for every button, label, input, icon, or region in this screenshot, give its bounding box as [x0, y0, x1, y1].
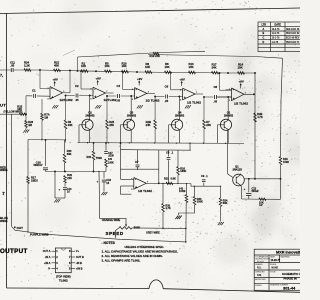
node OUT	[14, 226, 16, 228]
pin 3	[52, 262, 56, 264]
wire stage3 output	[147, 92, 155, 94]
ground R34	[218, 222, 220, 225]
resistor R30 4.7K	[162, 183, 164, 203]
svg-text:WIRE: WIRE	[0, 219, 8, 223]
capacitor C9	[203, 183, 205, 187]
wire lfo lower link	[185, 228, 187, 230]
svg-text:PER ECO 52: PER ECO 52	[286, 33, 300, 35]
node bus joints	[41, 139, 42, 140]
svg-text:OUT A: OUT A	[43, 250, 51, 253]
svg-text:AP: AP	[259, 204, 263, 207]
svg-text:C1: C1	[32, 89, 36, 93]
svg-text:B: B	[263, 32, 265, 35]
wire upper rail A	[78, 51, 206, 57]
resistor R7 24K	[203, 97, 205, 120]
op-amp U3a	[232, 88, 245, 101]
svg-text:GREY WIRE: GREY WIRE	[146, 231, 160, 234]
svg-text:+: +	[94, 95, 96, 99]
op-amp U2a	[135, 88, 148, 100]
svg-text:R30: R30	[67, 150, 72, 153]
capacitor C1	[32, 94, 37, 99]
resistor R24	[24, 69, 31, 72]
svg-text:- NOTES: - NOTES	[102, 241, 116, 245]
pot wiper	[125, 218, 127, 224]
node input	[25, 113, 27, 115]
wire Q4 gate	[169, 124, 172, 126]
svg-text:WIRE: WIRE	[0, 168, 8, 172]
svg-text:1/2 TL062: 1/2 TL062	[187, 100, 201, 104]
svg-text:+IN A: +IN A	[44, 262, 51, 265]
svg-text:10K: 10K	[189, 65, 194, 69]
svg-text:1/2 TL062: 1/2 TL062	[146, 99, 160, 103]
svg-text:1-9-76: 1-9-76	[272, 42, 279, 44]
wire stage3 plus input	[107, 95, 135, 97]
transistor Q1 2N5952	[220, 119, 231, 130]
resistor R10	[122, 70, 129, 73]
transistor Q1 2N4125	[233, 174, 245, 186]
svg-text:+: +	[184, 96, 186, 100]
resistor R6 24K	[65, 96, 67, 121]
pin 1	[52, 250, 56, 252]
ground R33	[176, 216, 178, 219]
ground U1a	[52, 105, 54, 108]
svg-text:180K: 180K	[180, 170, 186, 173]
svg-text:C2: C2	[75, 84, 79, 88]
scratch artifact	[63, 50, 75, 56]
revision table	[258, 22, 302, 52]
op-amp U2b	[183, 88, 196, 100]
svg-text:ORANGE WIRE: ORANGE WIRE	[102, 219, 121, 222]
node rail-6	[254, 72, 256, 74]
svg-text:11-6-75: 11-6-75	[272, 33, 280, 35]
wire bypass down	[11, 114, 13, 226]
svg-text:UNLESS OTHERWISE SPEC.: UNLESS OTHERWISE SPEC.	[125, 245, 165, 249]
pin 7	[71, 256, 75, 258]
svg-text:OUTPUT: OUTPUT	[0, 248, 28, 255]
wire Q5 to Q1	[227, 131, 229, 175]
svg-text:+: +	[244, 187, 246, 191]
ground lfo1	[175, 216, 177, 219]
resistor R13	[189, 71, 196, 74]
wire stage2 minus input	[80, 71, 82, 89]
svg-text:V-: V-	[48, 268, 51, 271]
svg-text:R29: R29	[67, 174, 72, 177]
transistor Q4 2N5952	[172, 119, 183, 130]
wire input	[0, 113, 26, 115]
pot right terminal	[132, 227, 186, 230]
op-amp U1a	[50, 87, 63, 99]
wire lfo column C17	[105, 143, 107, 151]
svg-text:A: A	[263, 28, 265, 31]
transistor Q2 2N5952	[82, 119, 93, 130]
wire lfo minus	[120, 169, 122, 179]
capacitor C10	[45, 140, 47, 166]
svg-text:LTR: LTR	[262, 24, 267, 27]
svg-text:100K: 100K	[108, 161, 114, 164]
wire U1a output	[63, 92, 71, 94]
svg-text:56K: 56K	[223, 202, 228, 205]
svg-text:+IN B: +IN B	[76, 268, 83, 271]
wire U3a output	[244, 93, 255, 95]
wire Q2 gate	[79, 124, 82, 126]
pot left terminal	[116, 228, 120, 238]
svg-text:+: +	[51, 95, 53, 99]
svg-text:10-2-75: 10-2-75	[272, 29, 281, 31]
svg-text:+9V: +9V	[53, 78, 58, 82]
resistor R33 100K	[194, 186, 196, 196]
wire lfo output	[146, 182, 161, 184]
wire q1 base net	[191, 184, 221, 187]
wire gnd join	[55, 197, 65, 199]
pin 6	[71, 262, 75, 264]
wire lfo mid line	[121, 149, 192, 152]
transistor Q3 2N5952	[123, 119, 134, 130]
svg-text:+: +	[135, 186, 137, 190]
wire Q2 source	[89, 131, 91, 144]
resistor R16 180K	[177, 150, 179, 166]
svg-text:2. ALL RESISTANCE VALUES ARE I: 2. ALL RESISTANCE VALUES ARE IN OHMS.	[102, 254, 163, 258]
resistor R30 68K	[64, 140, 66, 154]
wire upper rail B	[148, 55, 283, 59]
wire stage4 minus input	[170, 72, 172, 89]
node stage2 bias	[65, 95, 67, 97]
svg-text:OUT B: OUT B	[76, 256, 84, 259]
svg-text:500uF: 500uF	[252, 190, 260, 193]
svg-text:C6: C6	[165, 85, 169, 89]
svg-text:-IN A: -IN A	[45, 256, 51, 259]
svg-text:100K: 100K	[197, 201, 203, 204]
wire stage5 plus input	[204, 96, 232, 98]
node rail-2	[69, 70, 71, 72]
resistor R29 22K	[64, 176, 67, 184]
wire Q4 source	[178, 131, 180, 144]
svg-text:10K: 10K	[105, 64, 110, 68]
wire Q1 drain	[227, 97, 229, 120]
capacitor C7	[137, 150, 139, 164]
svg-text:10K: 10K	[122, 64, 127, 68]
node stage4 bias	[154, 96, 156, 98]
svg-text:10K: 10K	[238, 65, 243, 69]
wire U1a inputs	[39, 70, 41, 89]
wire bias bus right	[78, 142, 244, 145]
svg-text:V+: V+	[76, 250, 80, 253]
svg-text:.05: .05	[75, 99, 79, 102]
title block	[254, 249, 302, 290]
wire Q1 emitter	[244, 178, 280, 180]
pin 4	[52, 268, 56, 270]
ground U1b	[95, 105, 97, 108]
svg-text:+9V: +9V	[96, 77, 101, 81]
resistor R7A	[41, 99, 43, 113]
ground C18	[101, 192, 103, 195]
svg-text:CHECKED: CHECKED	[255, 271, 265, 273]
node rail-1	[39, 69, 41, 71]
ground U2a	[137, 105, 139, 108]
svg-text:TITLE: TITLE	[270, 272, 276, 274]
op-amp U3b LFO	[134, 178, 147, 190]
resistor R9B	[186, 184, 188, 195]
wire stage4 output	[195, 93, 203, 95]
wire stage2 output	[106, 92, 114, 94]
svg-text:.05: .05	[10, 64, 14, 68]
svg-text:-IN B: -IN B	[76, 262, 82, 265]
svg-text:NONE: NONE	[272, 267, 279, 269]
svg-text:12-1-75: 12-1-75	[272, 38, 281, 40]
svg-text:4.7K: 4.7K	[257, 116, 263, 119]
wire U3a inputs	[226, 89, 232, 91]
wire Q3 source	[130, 131, 132, 144]
svg-text:10KB: 10KB	[179, 190, 186, 193]
svg-text:7,: 7,	[0, 74, 3, 78]
ground U2b	[185, 105, 187, 108]
wire purple	[40, 234, 186, 242]
node rail-4	[136, 71, 138, 73]
wire upper rail A drop	[77, 57, 79, 71]
pin 8	[71, 250, 75, 252]
svg-text:301-44: 301-44	[283, 286, 296, 291]
wire lfo out net	[161, 182, 191, 184]
svg-text:+: +	[59, 187, 61, 191]
wire stage5 output	[244, 93, 252, 95]
wire bias bus left	[28, 139, 66, 141]
wire orange drop	[99, 172, 126, 219]
resistor R26	[25, 114, 27, 120]
svg-text:1. ALL CAPACITANCE VALUES ARE: 1. ALL CAPACITANCE VALUES ARE IN MICROFA…	[102, 250, 179, 254]
capacitor C4	[116, 93, 120, 98]
border frame top	[0, 8, 300, 14]
pin 5	[71, 268, 75, 270]
wire Q3 drain	[130, 96, 132, 120]
svg-text:SCHEMATIC /: SCHEMATIC /	[282, 272, 300, 276]
svg-text:.01W: .01W	[108, 154, 114, 157]
svg-text:150K: 150K	[283, 161, 289, 164]
svg-text:+9V: +9V	[137, 77, 142, 81]
resistor R21b 6.8K	[166, 182, 173, 184]
node rail-3	[95, 70, 97, 72]
svg-text:UNLESS NOTED: UNLESS NOTED	[255, 258, 270, 260]
resistor R25 24K	[106, 96, 108, 120]
resistor R23	[19, 113, 26, 115]
wire grey to pot	[162, 212, 164, 228]
resistor R18 150K	[281, 58, 283, 100]
svg-text:68K: 68K	[67, 153, 72, 156]
wire stage2 plus input	[66, 95, 94, 97]
wire bus drop x190	[189, 143, 191, 150]
resistor R5	[105, 70, 112, 73]
svg-text:.05: .05	[117, 99, 121, 102]
svg-text:10-29-75: 10-29-75	[271, 259, 281, 262]
svg-text:10K: 10K	[145, 65, 150, 69]
resistor R14	[238, 72, 245, 75]
svg-text:1/2 TL062: 1/2 TL062	[138, 189, 152, 193]
border frame left	[6, 13, 8, 288]
svg-text:.05: .05	[165, 100, 169, 103]
resistor R28 feedback	[27, 140, 29, 177]
wire lfo feedback up	[158, 150, 160, 183]
ground output	[54, 199, 56, 202]
node stage5 bias	[203, 96, 205, 98]
svg-text:+: +	[233, 97, 235, 101]
wire stage5 minus input	[219, 73, 221, 90]
svg-text:10K: 10K	[81, 64, 86, 68]
svg-text:TL062: TL062	[59, 278, 68, 282]
op-amp U1b	[93, 87, 106, 99]
resistor R17	[212, 71, 219, 74]
svg-text:1/2TL062: 1/2TL062	[104, 98, 117, 102]
wire Q1 gate	[218, 124, 221, 126]
resistor R22 750K	[92, 151, 95, 160]
resistor R34 56K	[220, 186, 222, 198]
svg-text:2.2K: 2.2K	[24, 64, 30, 68]
wire output diagonal	[12, 226, 41, 233]
svg-text:D.M.: D.M.	[257, 275, 262, 277]
border frame bottom	[7, 287, 149, 290]
svg-text:1/2 TL062: 1/2 TL062	[234, 101, 248, 105]
svg-text:100: 100	[108, 158, 113, 161]
ground R26	[25, 128, 27, 130]
wire lfo plus	[121, 185, 134, 187]
potentiometer SPEED 500K	[119, 227, 132, 230]
resistor R26b	[254, 113, 257, 122]
wire bottom right	[242, 198, 281, 200]
svg-text:+: +	[136, 96, 138, 100]
resistor R31 100K	[105, 159, 108, 167]
wire input to buffer	[25, 96, 27, 114]
resistor R8	[165, 71, 172, 74]
pin 2	[52, 256, 56, 258]
resistor R19	[153, 52, 159, 54]
svg-text:.05: .05	[214, 100, 218, 103]
svg-text:10K: 10K	[165, 65, 170, 69]
capacitor C2	[75, 93, 79, 98]
svg-text:C: C	[263, 37, 265, 40]
svg-text:1MEG: 1MEG	[31, 180, 38, 183]
node stage3 bias	[106, 95, 108, 97]
wire lfo top line	[121, 143, 160, 169]
svg-text:+9V: +9V	[180, 77, 185, 81]
wire lfo column 750K	[93, 143, 95, 151]
svg-text:4.7K: 4.7K	[165, 207, 171, 210]
svg-text:R.S.: R.S.	[257, 268, 262, 270]
resistor R21	[54, 69, 61, 72]
wire Q1 source	[227, 131, 229, 144]
wire Q2 drain	[89, 96, 91, 120]
svg-text:D: D	[263, 41, 265, 44]
svg-text:DATE: DATE	[275, 24, 282, 27]
svg-text:MXR Innovations, Inc.: MXR Innovations, Inc.	[276, 250, 300, 254]
svg-text:PHASE 90: PHASE 90	[284, 277, 298, 281]
svg-text:OUT: OUT	[17, 226, 24, 230]
svg-text:ECO 60 REV: ECO 60 REV	[286, 38, 300, 40]
IC pinout TL062	[55, 248, 71, 273]
capacitor C6	[164, 94, 168, 99]
wire Q4 drain	[178, 97, 180, 120]
wire C10 to ground	[54, 172, 56, 199]
wire right column	[254, 73, 256, 179]
svg-text:560/10V: 560/10V	[34, 164, 43, 167]
capacitor C18 16uF	[103, 172, 105, 179]
svg-text:3. ALL OPAMPS ARE TL062.: 3. ALL OPAMPS ARE TL062.	[102, 259, 141, 263]
capacitor C12 500uF	[248, 179, 250, 193]
svg-text:45K: 45K	[54, 64, 59, 68]
wire main rail	[0, 70, 255, 73]
svg-text:UT: UT	[0, 103, 6, 108]
svg-text:FINISH: FINISH	[255, 285, 262, 287]
svg-text:.XX ±.01: .XX ±.01	[257, 261, 264, 263]
resistor R1	[81, 70, 88, 73]
node rail-5	[227, 72, 229, 74]
svg-text:C4: C4	[117, 84, 121, 88]
wire stage3 minus input	[122, 72, 124, 90]
resistor R35	[259, 198, 266, 200]
svg-text:6.8K: 6.8K	[171, 178, 177, 181]
resistor R2B 24K	[154, 97, 156, 121]
svg-text:SPEED: SPEED	[106, 231, 124, 236]
wire Q1 collector down	[241, 187, 243, 199]
svg-text:+9V: +9V	[239, 80, 244, 84]
svg-text:PER ECO 71: PER ECO 71	[286, 42, 300, 44]
svg-text:C8: C8	[214, 85, 218, 89]
capacitor C8	[213, 94, 217, 99]
svg-text:24K: 24K	[212, 65, 217, 69]
wire Q3 gate	[121, 124, 124, 126]
svg-text:1/2TL062: 1/2TL062	[60, 98, 73, 102]
svg-text:22K: 22K	[67, 177, 72, 180]
svg-text:R30: R30	[87, 156, 92, 159]
capacitor C8	[168, 150, 170, 157]
wire stage4 plus input	[155, 96, 183, 98]
svg-text:+: +	[97, 179, 99, 183]
wire lfo bottom link	[46, 171, 107, 173]
capacitor C11	[10, 68, 12, 72]
resistor R6	[145, 71, 152, 74]
